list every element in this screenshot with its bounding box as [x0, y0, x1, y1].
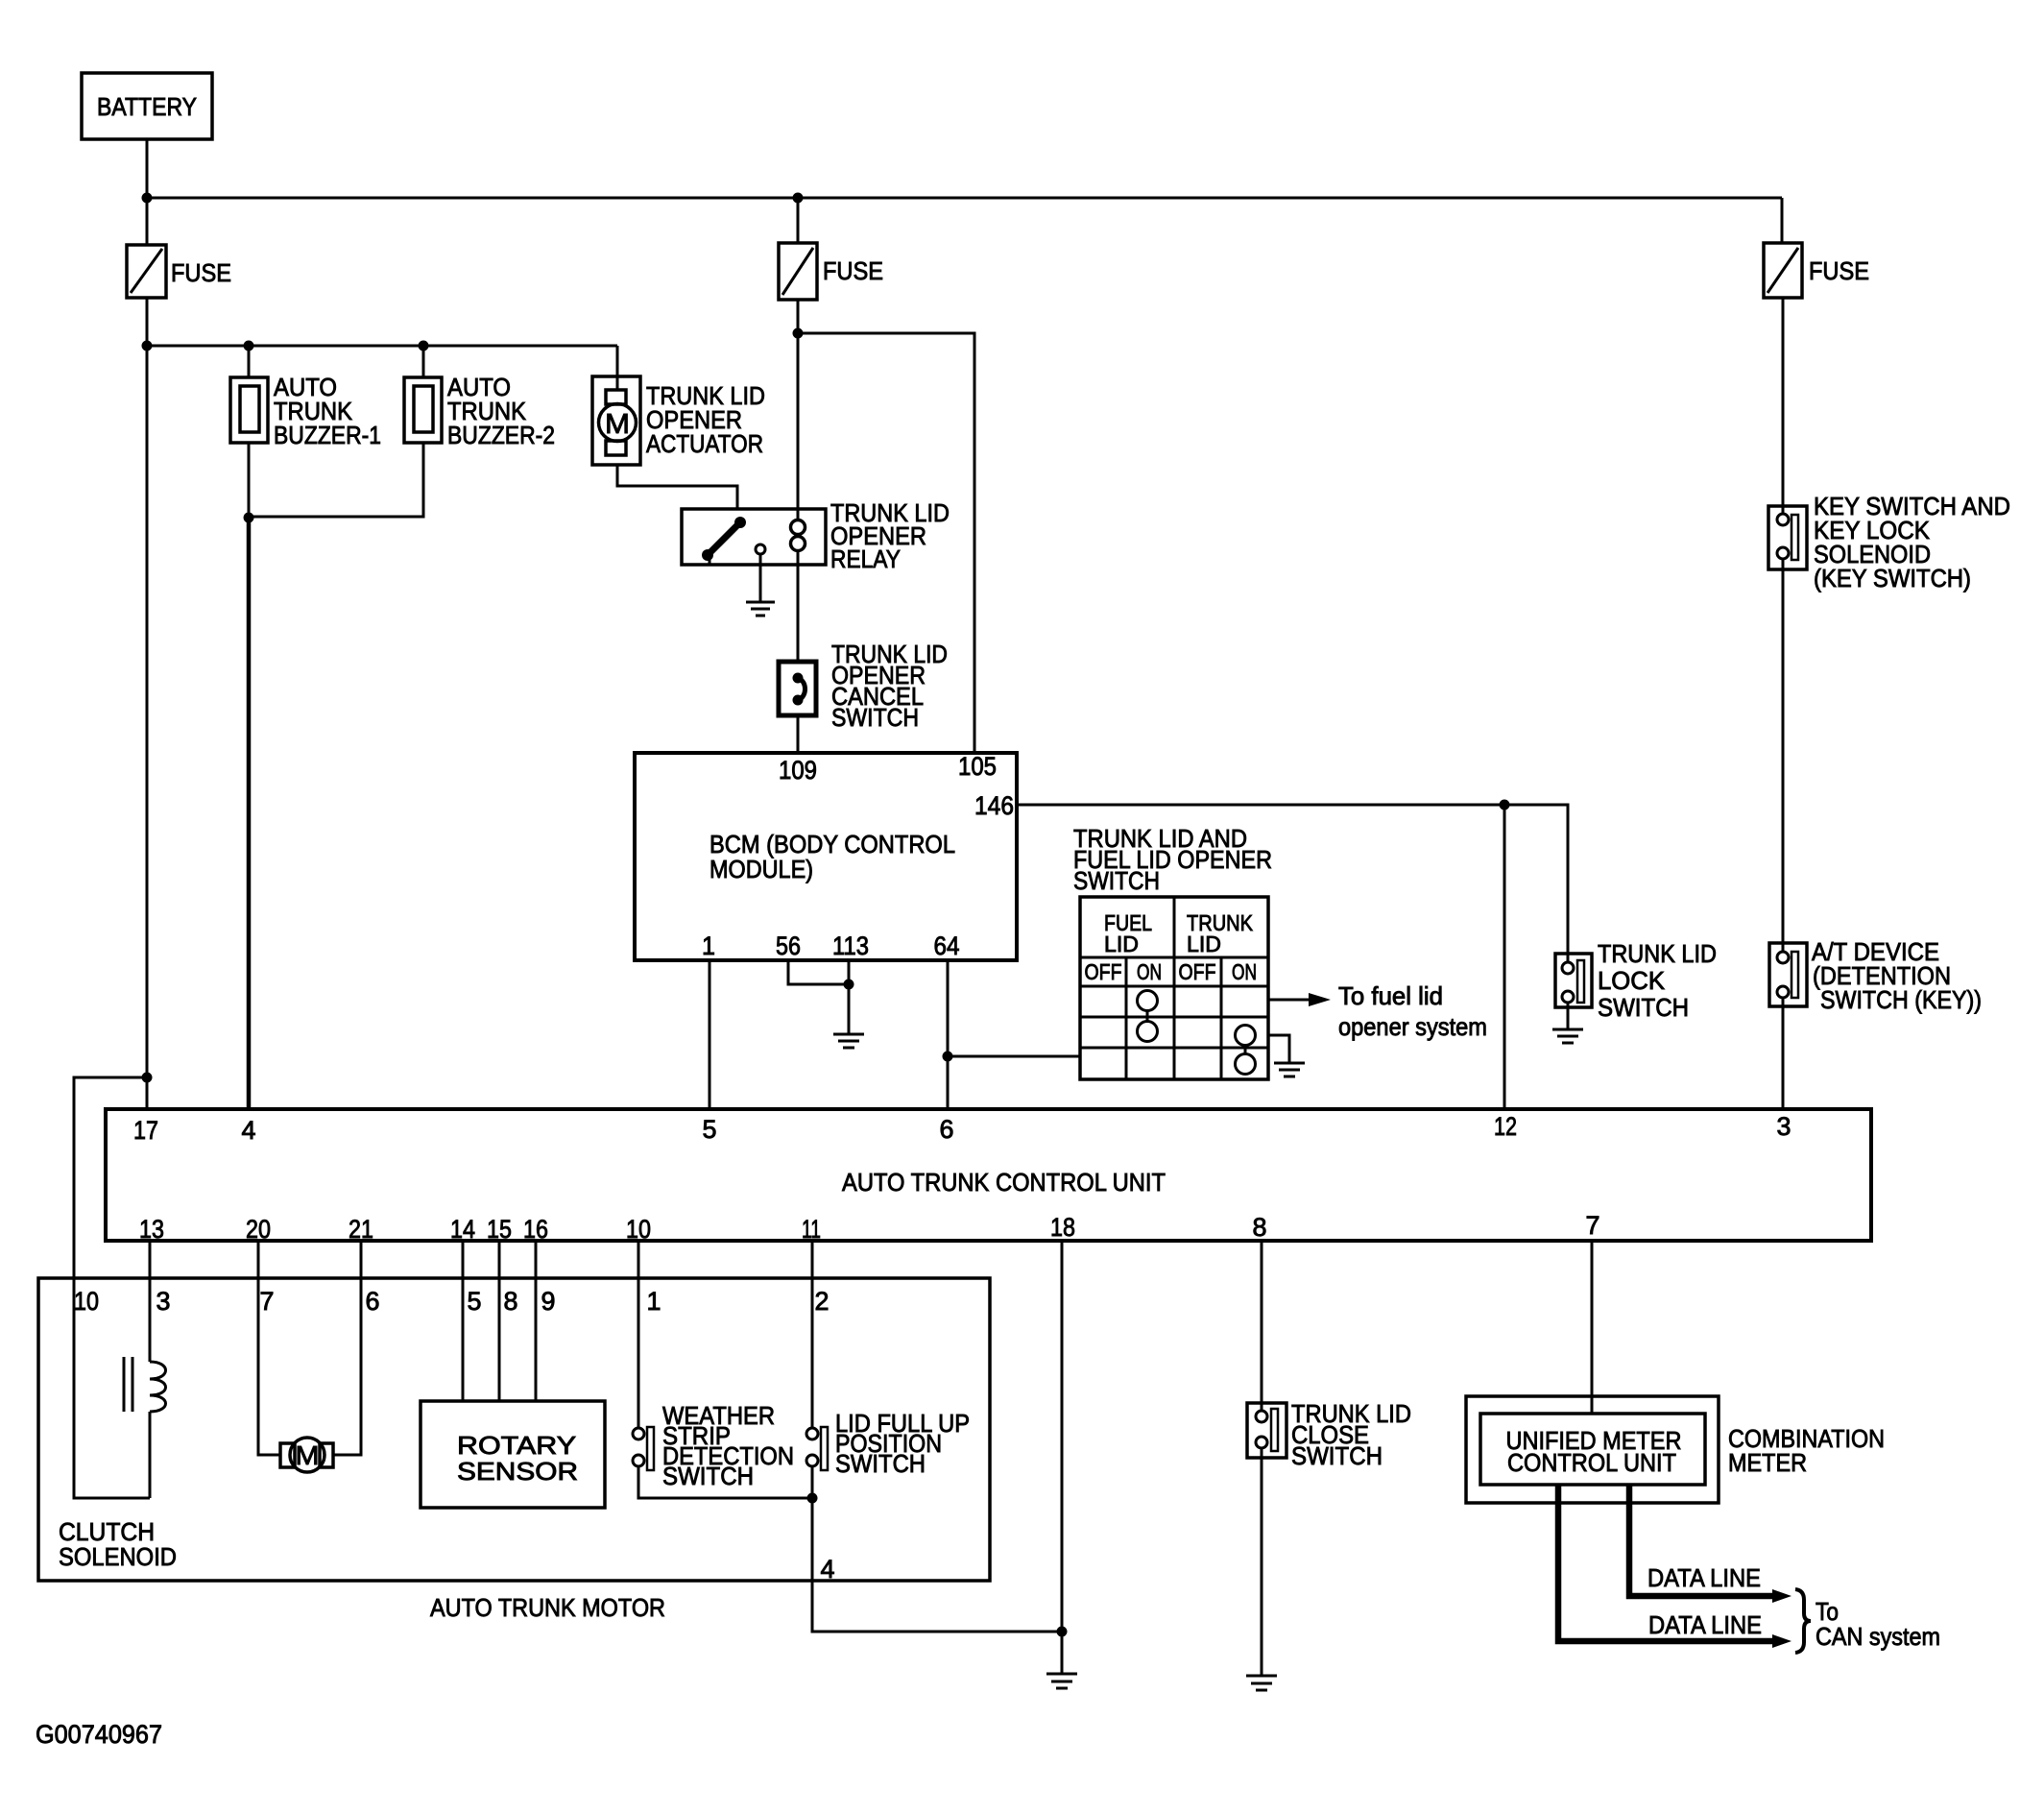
svg-text:LID: LID — [1104, 931, 1139, 956]
ground BCM 113 — [833, 1034, 864, 1048]
svg-text:SWITCH: SWITCH — [1291, 1441, 1383, 1470]
wire BCM pin 1 to pin 5 — [709, 960, 711, 1109]
trunk lid opener actuator M1 — [592, 346, 765, 465]
wire battery main vertical — [146, 346, 149, 1109]
node opener switch branch — [943, 1052, 953, 1062]
wire BCM pin 56 — [788, 960, 849, 984]
trunk lid opener cancel switch — [779, 640, 948, 732]
wire weather switch to junction — [638, 1466, 812, 1498]
wire to BCM pin 105 — [798, 333, 974, 753]
svg-text:opener system: opener system — [1338, 1012, 1487, 1041]
wire buzzer bus — [147, 345, 617, 348]
node clutch branch — [142, 1073, 153, 1083]
fuse F3 — [1764, 243, 1869, 298]
svg-text:4: 4 — [242, 1116, 256, 1145]
wire pin 4 of motor — [812, 1498, 1062, 1632]
svg-text:3: 3 — [156, 1287, 171, 1316]
svg-text:BUZZER-2: BUZZER-2 — [447, 421, 555, 449]
wire lock switch to ground — [1567, 1003, 1570, 1028]
wire fuse2 drop — [797, 198, 800, 243]
wire close switch to ground — [1261, 1448, 1263, 1675]
wire pin 15 to rotary sensor — [498, 1241, 501, 1401]
svg-text:SWITCH: SWITCH — [835, 1449, 926, 1478]
wire to pin 12 — [1503, 805, 1506, 1109]
wire opener switch to ground — [1268, 1035, 1289, 1062]
wire buzzer1 to pin4 — [247, 518, 252, 1109]
node pin12 junction — [1500, 800, 1510, 810]
svg-text:MODULE): MODULE) — [709, 855, 813, 883]
wire lid switch down — [811, 1466, 814, 1498]
node buzzer join — [244, 513, 254, 523]
wire pin 13 to clutch coil — [149, 1241, 152, 1362]
node buzzer1 top — [244, 341, 254, 351]
clutch solenoid — [59, 1357, 177, 1571]
wire pin 16 to rotary sensor — [535, 1241, 538, 1401]
svg-text:13: 13 — [139, 1215, 164, 1244]
node buzzer2 top — [419, 341, 429, 351]
wire pin 10 to weather switch — [637, 1241, 640, 1428]
svg-text:OFF: OFF — [1179, 959, 1216, 984]
svg-text:SWITCH: SWITCH — [1598, 993, 1689, 1022]
AT device detention switch — [1769, 937, 1982, 1014]
wire relay NO terminal to ground — [759, 554, 762, 601]
svg-text:AUTO TRUNK MOTOR: AUTO TRUNK MOTOR — [430, 1593, 665, 1622]
wire relay to cancel switch — [797, 565, 800, 662]
svg-text:G00740967: G00740967 — [36, 1720, 162, 1749]
wire BCM pin 64 to pin 6 — [947, 960, 950, 1109]
buzzer BZ2 — [404, 346, 555, 449]
node 105 branch — [793, 328, 804, 339]
svg-text:109: 109 — [779, 756, 817, 785]
svg-text:DATA LINE: DATA LINE — [1648, 1610, 1762, 1639]
fuse F1 — [127, 245, 231, 298]
svg-text:FUSE: FUSE — [1809, 256, 1869, 285]
wire bus right drop to fuse3 — [1781, 198, 1784, 243]
svg-text:12: 12 — [1494, 1112, 1517, 1141]
node lid switch junction — [807, 1493, 818, 1504]
svg-text:64: 64 — [934, 931, 960, 960]
wire to opener switch table — [948, 1055, 1080, 1058]
wire key switch to AT device — [1782, 559, 1785, 952]
svg-text:5: 5 — [703, 1115, 717, 1144]
svg-text:TRUNK LID: TRUNK LID — [1598, 939, 1717, 968]
BCM body control module — [635, 752, 1017, 960]
wire pin 20 to motor — [258, 1241, 280, 1455]
wire data line lower — [1558, 1485, 1792, 1648]
figure id G00740967 — [36, 1720, 162, 1749]
svg-text:CONTROL UNIT: CONTROL UNIT — [1507, 1448, 1676, 1477]
ground lock switch — [1552, 1029, 1583, 1043]
svg-text:5: 5 — [468, 1287, 482, 1316]
svg-text:10: 10 — [626, 1215, 651, 1244]
wire pin 11 to lid switch — [811, 1241, 814, 1428]
wire battery to top bus — [146, 139, 149, 198]
svg-text:8: 8 — [504, 1287, 518, 1316]
node fuse2 bus junction — [793, 193, 804, 204]
wire AT device to pin 3 — [1782, 998, 1785, 1109]
svg-text:M: M — [296, 1440, 320, 1470]
svg-text:4: 4 — [821, 1555, 835, 1584]
rotary sensor — [421, 1401, 605, 1508]
node 56-113 join — [844, 980, 854, 990]
arrow to fuel lid opener system — [1268, 981, 1487, 1041]
svg-text:56: 56 — [776, 931, 801, 960]
weather strip detection switch — [633, 1401, 794, 1490]
svg-text:8: 8 — [1253, 1213, 1267, 1242]
ground relay — [746, 602, 775, 616]
wire buzzer2 down — [249, 443, 423, 517]
auto trunk control unit — [106, 1109, 1871, 1244]
svg-text:ON: ON — [1232, 959, 1257, 984]
svg-text:3: 3 — [1777, 1112, 1792, 1141]
svg-text:FUSE: FUSE — [823, 256, 883, 285]
wire pin 8 to close switch — [1261, 1241, 1263, 1411]
wire BCM pin 113 to ground — [848, 960, 851, 1033]
ground close switch — [1246, 1676, 1277, 1690]
wire pin 7 to combination meter — [1591, 1241, 1594, 1414]
key switch and key lock solenoid — [1768, 492, 2010, 593]
svg-text:6: 6 — [366, 1287, 380, 1316]
trunk lid close switch — [1247, 1399, 1411, 1470]
trunk lid and fuel lid opener switch — [1073, 824, 1272, 1079]
node battery bus junction — [142, 193, 153, 204]
svg-text:M: M — [605, 409, 630, 440]
svg-text:ACTUATOR: ACTUATOR — [646, 429, 763, 458]
svg-text:SWITCH (KEY)): SWITCH (KEY)) — [1820, 985, 1982, 1014]
svg-text:(KEY SWITCH): (KEY SWITCH) — [1814, 564, 1971, 593]
ground opener switch — [1274, 1063, 1305, 1076]
wire fuse F1 to buzzer bus — [146, 298, 149, 346]
trunk lid opener relay K1 — [682, 498, 950, 573]
trunk lid lock switch — [1555, 939, 1717, 1022]
svg-text:DATA LINE: DATA LINE — [1647, 1563, 1761, 1592]
svg-text:15: 15 — [487, 1215, 512, 1244]
node pin4-18 junction — [1057, 1627, 1068, 1637]
svg-text:METER: METER — [1728, 1448, 1807, 1477]
buzzer BZ1 — [230, 346, 381, 449]
svg-text:20: 20 — [246, 1215, 271, 1244]
svg-text:SWITCH: SWITCH — [1073, 866, 1160, 895]
svg-text:11: 11 — [802, 1215, 821, 1244]
wire fuse2 to relay — [797, 300, 800, 509]
wire pin 18 to ground — [1061, 1241, 1064, 1673]
svg-text:CAN system: CAN system — [1816, 1622, 1940, 1651]
svg-text:SOLENOID: SOLENOID — [59, 1542, 177, 1571]
ground 18 — [1046, 1674, 1077, 1688]
wire cancel switch to BCM pin 109 — [797, 715, 800, 753]
svg-text:1: 1 — [702, 931, 715, 960]
svg-text:BATTERY: BATTERY — [97, 92, 197, 121]
wire pin 14 to rotary sensor — [462, 1241, 465, 1401]
svg-text:7: 7 — [260, 1287, 275, 1316]
svg-text:OFF: OFF — [1085, 959, 1122, 984]
svg-text:SWITCH: SWITCH — [831, 703, 919, 732]
svg-text:AUTO TRUNK CONTROL UNIT: AUTO TRUNK CONTROL UNIT — [842, 1168, 1166, 1197]
brace to CAN system — [1795, 1589, 1940, 1653]
wire pin 21 to motor — [333, 1241, 361, 1455]
svg-text:10: 10 — [74, 1287, 99, 1316]
combination meter — [1466, 1396, 1885, 1503]
auto trunk motor M2 — [280, 1438, 333, 1472]
svg-text:ON: ON — [1137, 959, 1162, 984]
svg-text:17: 17 — [133, 1116, 158, 1145]
svg-text:7: 7 — [1586, 1211, 1600, 1240]
svg-text:SWITCH: SWITCH — [662, 1462, 754, 1490]
svg-text:113: 113 — [832, 931, 869, 960]
wire fuse3 to key switch — [1782, 298, 1785, 514]
svg-text:105: 105 — [958, 752, 997, 781]
wire buzzer1 down — [248, 443, 251, 518]
svg-text:RELAY: RELAY — [830, 544, 901, 573]
svg-text:146: 146 — [974, 791, 1014, 820]
svg-text:BUZZER-1: BUZZER-1 — [274, 421, 381, 449]
svg-text:FUSE: FUSE — [171, 258, 231, 287]
wire bus to fuse F1 — [146, 198, 149, 245]
svg-text:16: 16 — [523, 1215, 548, 1244]
wire actuator to relay — [617, 465, 737, 509]
svg-text:SENSOR: SENSOR — [457, 1457, 578, 1486]
svg-text:To fuel lid: To fuel lid — [1338, 981, 1443, 1010]
svg-text:LOCK: LOCK — [1598, 966, 1666, 995]
svg-text:14: 14 — [450, 1215, 475, 1244]
auto trunk motor box — [38, 1278, 990, 1622]
wire data line upper — [1629, 1485, 1792, 1603]
wire BCM 146 to lock switch — [1017, 805, 1568, 962]
wire top bus — [147, 197, 1782, 200]
node buzzer bus left — [142, 341, 153, 351]
svg-text:21: 21 — [349, 1215, 373, 1244]
wire branch to clutch solenoid — [74, 1077, 150, 1498]
svg-text:2: 2 — [815, 1287, 830, 1316]
svg-text:18: 18 — [1050, 1213, 1075, 1242]
battery — [82, 73, 212, 139]
svg-text:LID: LID — [1187, 931, 1221, 956]
lid full up position switch — [806, 1409, 970, 1478]
svg-text:ROTARY: ROTARY — [457, 1431, 576, 1460]
svg-text:1: 1 — [647, 1287, 661, 1316]
svg-text:6: 6 — [940, 1115, 954, 1144]
svg-text:9: 9 — [541, 1287, 556, 1316]
fuse F2 — [779, 243, 883, 300]
